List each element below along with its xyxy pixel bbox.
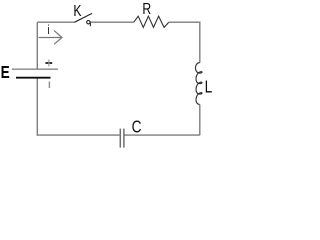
wire top-right segment [169, 21, 200, 23]
wire bottom-left segment [37, 134, 120, 136]
wire top-middle segment [91, 21, 134, 23]
current arrow shaft [39, 37, 62, 39]
wire left lower segment [36, 78, 38, 136]
svg-text:K: K [73, 2, 82, 20]
wire bottom-right segment [124, 134, 200, 136]
wire left upper segment [36, 22, 38, 69]
battery E negative plate [16, 77, 51, 79]
switch K contact circle [87, 21, 90, 24]
wire right upper segment [199, 22, 201, 63]
svg-text:C: C [132, 118, 142, 137]
battery E positive plate [12, 68, 58, 70]
inductor L coil [195, 63, 202, 105]
resistor R zigzag [134, 16, 169, 27]
svg-text:i: i [47, 24, 49, 38]
svg-text:L: L [205, 78, 213, 97]
svg-text:E: E [1, 63, 10, 82]
switch K contact tail [89, 22, 91, 27]
capacitor C left plate [119, 129, 121, 148]
switch K blade [74, 13, 92, 22]
capacitor C right plate [123, 129, 125, 148]
svg-text:R: R [142, 0, 151, 18]
wire right lower segment [199, 105, 201, 136]
battery minus sign [48, 82, 50, 88]
wire top-left segment [37, 21, 74, 23]
battery plus sign [45, 62, 52, 64]
current arrow head [54, 31, 62, 45]
